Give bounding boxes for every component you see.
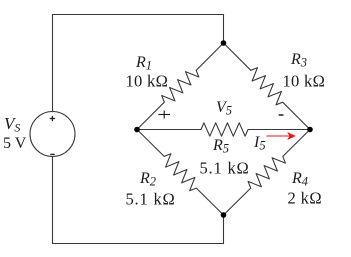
resistor R3 (zigzag between node T and node R) [224,43,311,130]
node B junction dot [221,212,227,218]
resistor R1 (zigzag between node L and node T) [137,43,224,130]
svg-text:R2: R2 [139,170,156,189]
resistor R2 (zigzag between node L and node B) [137,130,224,216]
V5 minus sign [279,114,284,116]
wire top rail drop to node T [223,15,225,44]
svg-text:10 kΩ: 10 kΩ [283,72,326,91]
svg-text:R3: R3 [290,51,307,70]
current I5 red arrow [267,132,296,140]
svg-text:R1: R1 [135,54,152,73]
node T junction dot [221,40,227,46]
wire bottom rail rise to node B [223,215,225,244]
resistor R5 (horizontal zigzag between node L and node R) [137,123,310,136]
svg-text:I5: I5 [253,134,266,153]
svg-text:5.1 kΩ: 5.1 kΩ [200,159,250,178]
svg-text:2 kΩ: 2 kΩ [288,189,323,208]
node L junction dot [134,127,140,133]
wire top rail horizontal [53,14,224,16]
svg-text:5.1 kΩ: 5.1 kΩ [126,190,176,209]
svg-text:R5: R5 [212,137,229,156]
wire bottom rail horizontal [53,243,224,245]
svg-text:R4: R4 [291,170,308,189]
node R junction dot [307,127,313,133]
voltage source plus terminal mark [50,116,55,121]
svg-text:V5: V5 [216,99,232,118]
V5 plus sign [158,111,170,119]
wire top-left vertical (source to top rail) [52,15,54,112]
svg-text:10 kΩ: 10 kΩ [126,72,169,91]
svg-text:5 V: 5 V [3,135,27,152]
svg-text:VS: VS [4,114,20,135]
wire bottom-left vertical (source to bottom rail) [52,157,54,244]
voltage source minus terminal mark [50,153,54,155]
resistor R4 (zigzag between node B and node R) [224,130,311,216]
voltage source VS circle [30,112,75,157]
